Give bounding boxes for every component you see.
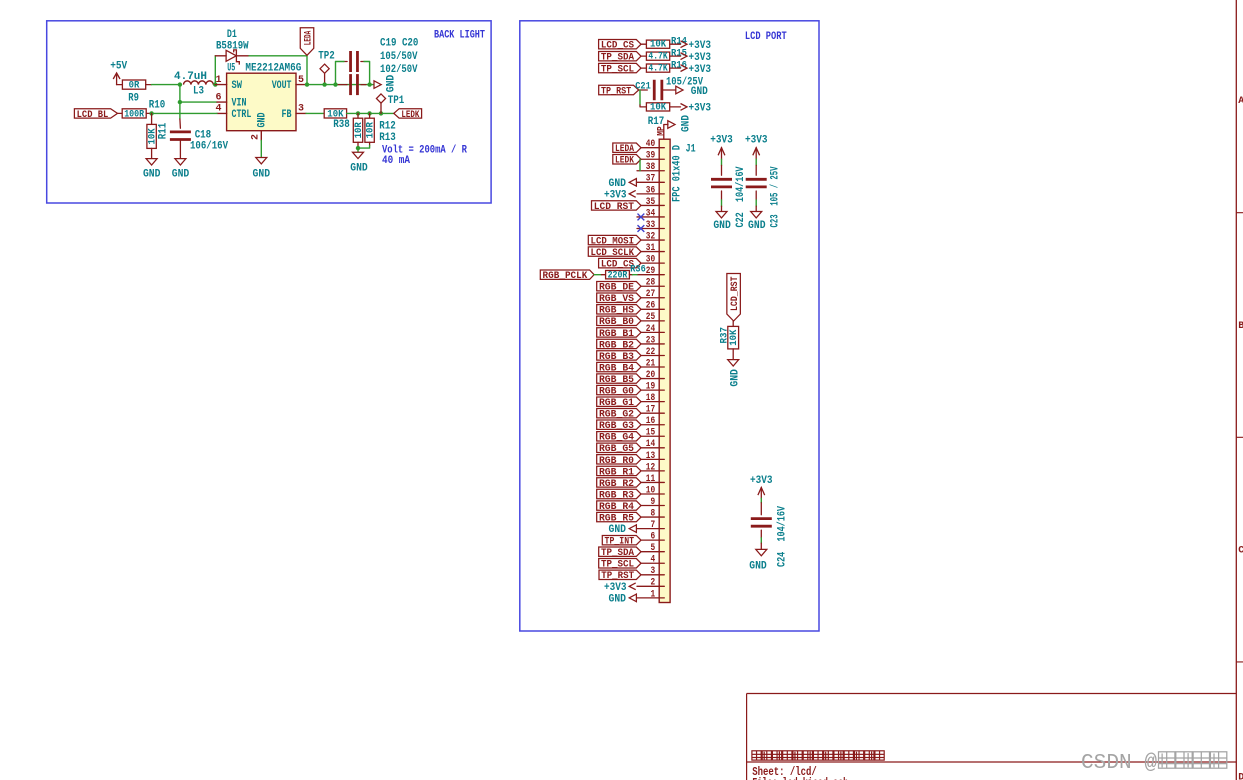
power +3V3 R16 [681,64,712,76]
value R12 R13 [379,120,396,144]
svg-text:C19 C20: C19 C20 [380,38,418,50]
wire CTRL row [152,112,217,114]
wire +5V vertical to C18 [179,85,181,119]
no-connect pin33 [638,225,645,232]
svg-text:19: 19 [646,382,655,393]
U5 pin 5 [296,75,306,86]
svg-text:1: 1 [215,75,221,86]
svg-text:4: 4 [651,555,656,566]
flag RGB_VS pin27 [597,293,641,305]
svg-text:+3V3: +3V3 [745,134,768,146]
power +3V3 pin2 [604,582,636,594]
flag RGB_G0 pin19 [597,385,641,397]
svg-text:GND: GND [713,220,731,232]
ground pin7 [609,524,637,536]
ground C23 [748,206,766,232]
svg-text:32: 32 [646,231,655,242]
U5 pin 2 [251,131,262,141]
resistor R9 0R [117,80,152,105]
svg-text:34: 34 [646,208,655,219]
svg-text:16: 16 [646,416,655,427]
svg-text:LEDA: LEDA [615,143,635,155]
flag RGB_B5 pin20 [597,374,641,386]
ground pin37 [609,178,637,190]
svg-text:27: 27 [646,289,655,300]
svg-text:RGB_B0: RGB_B0 [599,316,634,328]
wire C19 loop left [336,62,345,85]
svg-text:LCD_CS: LCD_CS [601,40,634,52]
U5 pin 4 [215,104,226,115]
svg-text:R10: R10 [149,100,166,112]
wire C24 bottom [760,538,762,543]
svg-text:6: 6 [215,92,221,103]
svg-text:RGB_G0: RGB_G0 [599,386,634,398]
svg-text:GND: GND [609,524,627,536]
no-connect pin34 [638,214,645,221]
svg-text:LEDK: LEDK [615,155,635,167]
svg-text:CTRL: CTRL [232,109,252,121]
flag RGB_G3 pin16 [597,420,641,432]
wire C23 bottom [755,200,757,206]
wire C24 top [760,498,762,503]
svg-text:RGB_G2: RGB_G2 [599,409,634,421]
svg-text:A: A [1238,96,1243,107]
resistor R13 10R [364,113,376,145]
svg-text:RGB_B1: RGB_B1 [599,328,634,340]
resistor R16 4.7K [641,59,687,74]
svg-text:5: 5 [298,75,304,86]
svg-text:4.7uH: 4.7uH [174,71,207,83]
svg-text:12: 12 [646,462,655,473]
junction C20 right [367,82,371,86]
sheet region BACK LIGHT [47,21,491,203]
svg-text:LCD PORT: LCD PORT [745,31,787,43]
title company name 深圳市启明智显科技有限公司 [752,751,884,760]
power +5V [110,60,127,84]
svg-text:LCD_RST: LCD_RST [594,201,634,213]
junction TP2 [322,82,326,86]
ground VOUT rail [374,74,398,92]
wire SW node up to diode [214,56,216,85]
svg-text:10R: 10R [353,122,365,139]
svg-text:J1: J1 [686,144,696,156]
svg-text:220R: 220R [608,269,628,281]
svg-text:VOUT: VOUT [272,80,292,92]
resistor R36 220R [606,263,646,281]
flag TP_SDA pin5 [599,547,641,559]
svg-text:35: 35 [646,197,655,208]
svg-text:1: 1 [651,589,656,600]
svg-text:LCD_RST: LCD_RST [729,277,741,312]
svg-text:5: 5 [651,543,656,554]
svg-text:31: 31 [646,243,655,254]
svg-text:RGB_R5: RGB_R5 [599,512,634,524]
svg-text:B5819W: B5819W [216,40,249,52]
wire C19 loop right [364,62,370,85]
resistor R14 10K [641,35,687,50]
svg-text:R38: R38 [333,119,350,131]
power +3V3 C22 [710,134,733,159]
sheet region LCD PORT [520,21,819,631]
power +3V3 C24 [750,475,773,498]
svg-text:+3V3: +3V3 [710,134,733,146]
svg-text:39: 39 [646,151,655,162]
svg-text:+3V3: +3V3 [689,103,712,115]
wire R13 bottom jog [358,146,370,149]
svg-text:BACK LIGHT: BACK LIGHT [434,29,485,41]
ground C18 [172,159,190,181]
svg-text:GND: GND [609,593,627,605]
svg-text:106/16V: 106/16V [190,140,228,152]
svg-text:+3V3: +3V3 [604,582,627,594]
resistor R38 10K [324,108,350,131]
wire VOUT row [306,84,374,86]
svg-text:R17: R17 [648,116,665,128]
flag LCD_CS pullup [599,40,641,52]
svg-text:25: 25 [646,312,655,323]
U5 pin 1 [215,75,226,86]
svg-text:B: B [1238,321,1243,332]
svg-text:4.7K: 4.7K [648,63,668,75]
svg-text:+3V3: +3V3 [750,475,773,487]
svg-text:C: C [1238,545,1243,556]
svg-text:GND: GND [257,112,269,127]
svg-text:CSDN @: CSDN @ [1081,751,1157,775]
svg-text:GND: GND [386,74,398,92]
wire TP_RST node [639,89,648,91]
capacitor C19 [344,51,364,72]
svg-text:RGB_VS: RGB_VS [599,293,634,305]
power +3V3 R14 [681,40,712,52]
flag RGB_G5 pin14 [597,443,641,455]
svg-text:100R: 100R [124,108,145,120]
junction node SW [213,82,217,86]
U5 pin 6 [215,92,226,103]
flag RGB_R2 pin11 [597,478,641,490]
ground C22 [713,206,731,232]
wire diode to LEDA node [249,56,307,85]
wire VIN [180,101,217,103]
note Volt formula [382,145,467,168]
svg-text:LCD_SCLK: LCD_SCLK [591,247,635,259]
ground R12 R13 [350,152,368,174]
flag RGB_B2 pin23 [597,339,641,351]
svg-text:GND: GND [691,86,708,98]
flag RGB_DE pin28 [597,282,641,294]
svg-text:105/50V: 105/50V [380,51,418,63]
svg-text:10R: 10R [364,122,376,139]
svg-text:21: 21 [646,358,655,369]
power +3V3 pin36 [604,189,636,201]
svg-text:RGB_B5: RGB_B5 [599,374,634,386]
flag TP_INT pin6 [602,535,641,547]
wire R38 to LEDK [347,112,394,114]
svg-text:6: 6 [651,532,656,543]
junction C20 left [333,82,337,86]
flag LEDA pin40 [613,143,641,155]
svg-text:TP_SDA: TP_SDA [601,547,635,559]
svg-text:RGB_DE: RGB_DE [599,282,634,294]
svg-text:10: 10 [646,485,655,496]
flag TP_RST pin3 [599,570,641,582]
svg-text:RGB_PCLK: RGB_PCLK [543,270,588,282]
svg-text:RGB_R1: RGB_R1 [599,466,634,478]
wire C23 top [755,159,757,165]
flag RGB_R4 pin9 [597,501,641,513]
junction node VIN [178,100,182,104]
wire LEDK jumper pin39 to pin38 [639,159,641,171]
svg-text:LEDA: LEDA [303,30,315,45]
testpoint TP2 [318,51,335,85]
flag RGB_R1 pin12 [597,466,641,478]
svg-text:2: 2 [251,134,262,140]
svg-text:GND: GND [680,115,692,132]
capacitor C20 [338,74,366,95]
svg-text:RGB_R2: RGB_R2 [599,478,634,490]
junction R12/R13 bottom [356,146,360,150]
svg-text:22: 22 [646,347,655,358]
svg-text:3: 3 [298,104,304,115]
flag RGB_G2 pin17 [597,408,641,420]
wire FB row [306,112,324,114]
svg-text:20: 20 [646,370,655,381]
svg-text:TP1: TP1 [388,95,405,107]
flag RGB_HS pin26 [597,305,641,317]
svg-text:13: 13 [646,451,655,462]
junction TP1 [379,111,383,115]
resistor R17 10K [646,101,680,127]
capacitor C24 104/16V [751,503,772,538]
junction R10/R11 [149,111,153,115]
flag LEDA [300,28,314,56]
diode D1 B5819W [215,29,249,65]
svg-text:C22 104/16V: C22 104/16V [735,166,747,227]
power +3V3 C23 [745,134,768,159]
flag LCD_CS pin30 [599,258,641,270]
ground R37 [728,360,742,387]
svg-text:TP_RST: TP_RST [601,85,631,97]
svg-text:L3: L3 [193,86,204,98]
flag LCD_SCLK pin31 [588,247,641,259]
svg-text:RGB_B4: RGB_B4 [599,362,634,374]
wire C22 bottom [721,200,723,206]
svg-text:0R: 0R [129,80,140,92]
svg-text:RGB_HS: RGB_HS [599,305,634,317]
flag RGB_R5 pin8 [597,512,641,524]
svg-text:TP_SDA: TP_SDA [601,52,635,64]
svg-text:28: 28 [646,278,655,289]
svg-text:R37: R37 [719,327,731,344]
flag TP_SDA pullup [599,51,641,63]
connector J1 FPC 01x40 D [659,139,696,602]
svg-text:GND: GND [730,369,742,387]
svg-text:GND: GND [253,169,271,181]
flag LCD_RST pin35 [592,201,642,213]
power +3V3 R17 [681,103,712,115]
svg-text:40: 40 [646,139,655,150]
svg-text:LCD_MOSI: LCD_MOSI [591,235,635,247]
wire R9 to L3 [152,84,181,86]
svg-text:14: 14 [646,439,655,450]
svg-text:C23 105 / 25V: C23 105 / 25V [770,166,782,227]
svg-text:30: 30 [646,255,655,266]
svg-text:R9: R9 [128,93,139,105]
ground C21 [676,86,708,98]
svg-text:ME2212AM6G: ME2212AM6G [245,63,301,75]
flag RGB_B0 pin25 [597,316,641,328]
svg-text:102/50V: 102/50V [380,64,418,76]
svg-text:11: 11 [646,474,655,485]
svg-text:FB: FB [282,109,292,121]
svg-text:GND: GND [143,168,161,180]
flag LCD_RST vertical [727,274,741,322]
resistor R37 10K [719,321,740,360]
resistor R11 10K [146,113,169,158]
svg-text:D1: D1 [227,29,237,41]
svg-text:VIN: VIN [232,98,247,110]
svg-text:TP_SCL: TP_SCL [601,559,634,571]
svg-text:8: 8 [651,508,656,519]
flag LCD_MOSI pin32 [588,235,641,247]
svg-text:TP2: TP2 [318,51,335,63]
svg-text:RGB_R0: RGB_R0 [599,455,634,467]
flag TP_SCL pullup [599,63,641,75]
junction R13 top [367,111,371,115]
svg-text:+3V3: +3V3 [689,52,712,64]
flag LEDK backlight [394,109,422,121]
flag RGB_B1 pin24 [597,328,641,340]
flag LCD_BL [74,109,117,121]
svg-text:GND: GND [749,561,767,573]
resistor R10 100R [118,100,166,121]
svg-text:40 mA: 40 mA [382,155,410,167]
flag RGB_PCLK pin29 [540,270,594,282]
svg-text:LEDK: LEDK [401,109,419,121]
svg-text:D: D [1238,773,1243,780]
junction R12 top [356,111,360,115]
svg-text:GND: GND [609,178,627,190]
wire R36 to pin29 [633,274,638,276]
svg-text:R13: R13 [379,132,396,144]
svg-text:GND: GND [350,162,368,174]
U5 pin 3 [296,104,306,115]
J1 pin numbers [646,139,655,600]
capacitor C23 105&#160;/&#160;25V [746,165,767,200]
resistor R12 10R [353,113,365,148]
wire to ground R12 [357,148,359,152]
junction VOUT/LEDA [305,82,309,86]
flag RGB_G1 pin18 [597,397,641,409]
svg-text:2: 2 [651,578,656,589]
svg-text:33: 33 [646,220,655,231]
capacitor C21 105/25V [635,77,703,101]
power +3V3 R15 [681,52,712,64]
svg-text:R12: R12 [379,120,396,132]
ground MP pad [656,115,692,140]
svg-text:17: 17 [646,405,655,416]
flag RGB_B4 pin21 [597,362,641,374]
svg-text:GND: GND [748,220,766,232]
svg-text:4.7K: 4.7K [648,51,668,63]
svg-text:R36: R36 [630,263,646,275]
svg-text:GND: GND [172,168,190,180]
svg-text:24: 24 [646,324,655,335]
svg-text:SW: SW [232,80,243,92]
svg-text:U5: U5 [227,63,235,75]
svg-text:+3V3: +3V3 [689,40,712,52]
svg-text:38: 38 [646,162,655,173]
svg-text:15: 15 [646,428,655,439]
junction node +5V/L3 [178,82,182,86]
flag RGB_G4 pin15 [597,432,641,444]
flag RGB_R0 pin13 [597,455,641,467]
svg-text:7: 7 [651,520,656,531]
flag LEDK pin39 [613,155,641,167]
resistor R15 4.7K [641,47,687,62]
svg-text:RGB_B2: RGB_B2 [599,339,634,351]
ground pin1 [609,593,637,605]
ground R11 [143,159,161,181]
watermark CSDN @启明智显 [1081,751,1227,775]
svg-text:TP_RST: TP_RST [601,570,634,582]
J1 pin stubs [637,148,664,598]
flag RGB_B3 pin22 [597,351,641,363]
wire TP_RST to R17 [639,90,641,105]
svg-text:RGB_G5: RGB_G5 [599,443,634,455]
flag TP_SCL pin4 [599,559,641,571]
svg-text:RGB_B3: RGB_B3 [599,351,634,363]
wire C22 top [721,159,723,165]
testpoint TP1 [376,94,404,114]
svg-text:+3V3: +3V3 [604,189,627,201]
svg-text:C24 104/16V: C24 104/16V [776,506,788,567]
svg-text:10K: 10K [650,39,667,51]
wire U5 GND pin to ground [260,141,262,158]
ground U5 [253,158,271,181]
svg-text:RGB_G4: RGB_G4 [599,432,634,444]
title block border [747,694,1237,780]
svg-text:R11: R11 [157,122,169,139]
svg-text:TP_SCL: TP_SCL [601,64,634,76]
svg-text:36: 36 [646,185,655,196]
svg-text:+5V: +5V [110,60,127,72]
svg-text:18: 18 [646,393,655,404]
svg-text:FPC 01x40 D: FPC 01x40 D [672,145,684,202]
sheet frame right border [1236,0,1243,780]
svg-text:TP_INT: TP_INT [605,536,635,548]
svg-text:10K: 10K [650,101,667,113]
capacitor C22 104/16V [711,165,732,200]
capacitor C18 106/16V [170,119,228,159]
wire RGB_PCLK to R36 [594,274,601,276]
svg-text:29: 29 [646,266,655,277]
svg-text:MP: MP [656,126,667,136]
value C19 C20 [380,38,418,76]
svg-text:+3V3: +3V3 [689,64,712,76]
flag RGB_R3 pin10 [597,489,641,501]
svg-text:26: 26 [646,301,655,312]
svg-text:RGB_G3: RGB_G3 [599,420,634,432]
svg-text:LCD_BL: LCD_BL [77,109,109,121]
svg-text:37: 37 [646,174,655,185]
svg-text:RGB_R4: RGB_R4 [599,501,634,513]
flag TP_RST [599,85,639,97]
ground C24 [749,543,767,572]
svg-text:RGB_G1: RGB_G1 [599,397,634,409]
svg-text:3: 3 [651,566,656,577]
svg-text:RGB_R3: RGB_R3 [599,489,634,501]
op-amp U5 ME2212AM6G [227,63,302,131]
